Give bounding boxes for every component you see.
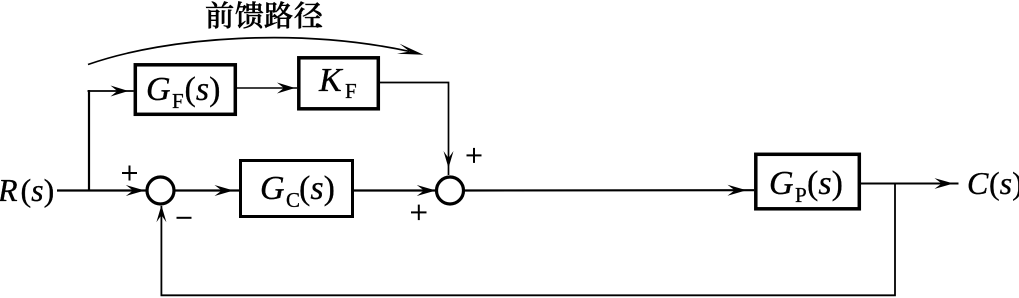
small ink dot after title (scan mark) — [316, 23, 320, 27]
svg-text:(s): (s) — [299, 170, 335, 207]
svg-text:(s): (s) — [185, 71, 221, 108]
svg-text:C: C — [967, 165, 989, 201]
svg-text:R: R — [0, 172, 18, 208]
wire: R(s) to summing junction 1 — [57, 185, 146, 196]
label: feedforward path title 前馈路径 — [206, 1, 322, 28]
svg-text:F: F — [172, 89, 184, 113]
block G_F(s) — [135, 65, 235, 115]
svg-text:F: F — [345, 79, 357, 103]
wire: G_F to K_F — [237, 83, 297, 94]
wire: feedback takeoff down, across bottom, and up into summing junction 1 — [156, 184, 895, 296]
sign + (top input of summing junction 2) — [467, 148, 482, 163]
svg-text:(s): (s) — [21, 172, 55, 208]
block G_P(s) — [756, 154, 860, 209]
svg-text:G: G — [769, 165, 794, 202]
summing junction 2 (circle) — [437, 177, 464, 204]
wire: K_F right and down into summing junction 2 — [380, 83, 454, 176]
svg-text:G: G — [260, 170, 285, 207]
svg-text:(s): (s) — [807, 165, 843, 202]
sign + (left input of summing junction 2) — [411, 205, 427, 221]
block G_C(s) — [241, 161, 353, 217]
wire: summing junction 1 to G_C — [174, 185, 240, 196]
svg-text:G: G — [146, 71, 171, 108]
sign - (feedback input of summing junction 1) — [177, 217, 192, 219]
svg-text:K: K — [318, 62, 344, 99]
wire: summing junction 2 to G_P — [464, 185, 755, 196]
wire: G_C to summing junction 2 — [354, 185, 437, 196]
wire: branch node up to G_F input — [88, 86, 134, 191]
svg-text:C: C — [286, 188, 300, 212]
svg-text:(s): (s) — [989, 165, 1019, 201]
feedforward curved arrow — [88, 38, 425, 65]
summing junction 1 (circle) — [147, 177, 174, 204]
wire: G_P to output C(s) — [861, 178, 959, 189]
block K_F — [299, 58, 379, 109]
svg-text:P: P — [795, 183, 807, 207]
sign + (input of summing junction 1) — [122, 166, 137, 181]
